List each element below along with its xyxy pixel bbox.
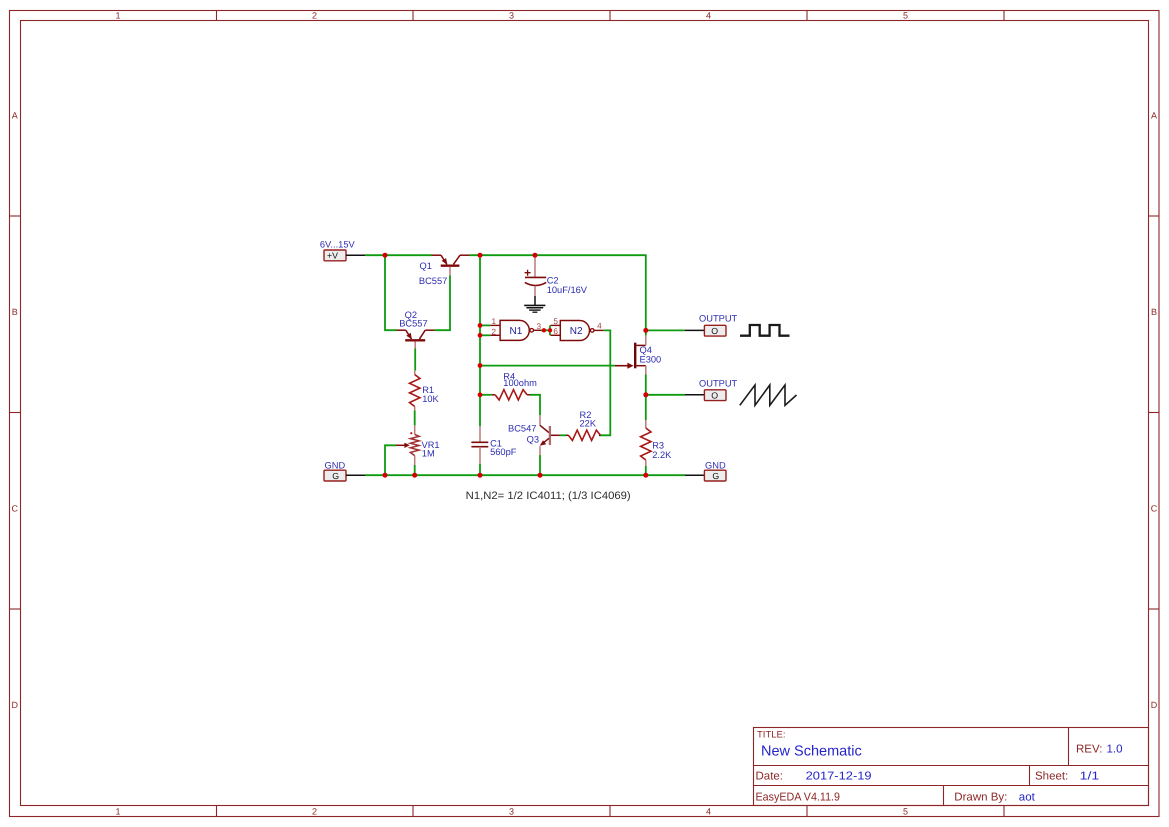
svg-text:OUTPUT: OUTPUT xyxy=(699,314,738,324)
svg-text:1M: 1M xyxy=(422,449,435,459)
capacitor C1 560pF xyxy=(471,426,516,464)
junction N1 output xyxy=(542,328,546,332)
svg-text:C: C xyxy=(11,504,18,514)
svg-text:3: 3 xyxy=(509,807,514,817)
wire Q3 base to R2 xyxy=(560,434,567,436)
svg-text:1: 1 xyxy=(115,11,120,21)
wire Q3 emitter to ground rail xyxy=(539,455,541,475)
junction rail at Q4 gate wire xyxy=(478,363,483,368)
svg-text:TITLE:: TITLE: xyxy=(757,730,786,741)
port OUTPUT (square wave) xyxy=(685,314,738,336)
wire vertical rail x=480 xyxy=(479,255,481,426)
wire Q1 base to Q2 collector xyxy=(435,276,451,331)
wire N1 out to N2 in xyxy=(541,329,550,331)
wire N2 output down to R2 xyxy=(599,330,610,435)
junction ground at R3 xyxy=(643,473,648,478)
wire output1 xyxy=(646,329,685,331)
svg-text:2: 2 xyxy=(492,327,497,336)
junction Q4 source / output2 xyxy=(643,392,648,397)
svg-text:560pF: 560pF xyxy=(490,447,517,457)
svg-text:6V...15V: 6V...15V xyxy=(320,239,356,249)
wire rail to N1 pin 1 xyxy=(480,324,490,326)
svg-text:REV:: REV: xyxy=(1076,744,1102,756)
svg-text:4: 4 xyxy=(706,11,711,21)
svg-text:Q1: Q1 xyxy=(420,261,432,271)
svg-text:N1: N1 xyxy=(510,326,523,337)
svg-text:aot: aot xyxy=(1019,791,1036,803)
wire rail to R4 xyxy=(480,394,492,396)
wire Q4 drain to junction xyxy=(645,330,647,335)
svg-text:22K: 22K xyxy=(580,419,597,429)
svg-text:EasyEDA V4.11.9: EasyEDA V4.11.9 xyxy=(756,791,841,803)
svg-text:N2: N2 xyxy=(570,326,583,337)
svg-text:100ohm: 100ohm xyxy=(503,378,537,388)
svg-text:2: 2 xyxy=(312,11,317,21)
power port +V (6V...15V) xyxy=(320,239,365,260)
svg-text:2: 2 xyxy=(312,807,317,817)
svg-text:GND: GND xyxy=(325,460,346,470)
junction top rail at C1 branch xyxy=(478,253,483,258)
NAND gate N2 (1/2 IC4011) xyxy=(551,317,604,340)
ground (earth) under C2 xyxy=(524,296,545,312)
svg-text:BC557: BC557 xyxy=(399,319,427,329)
svg-text:R3: R3 xyxy=(652,441,664,451)
junction rail at N1 pin1 xyxy=(478,323,483,328)
wire vertical N2 pins 5-6 xyxy=(549,325,551,335)
svg-text:Sheet:: Sheet: xyxy=(1035,771,1068,783)
svg-text:B: B xyxy=(1151,307,1157,317)
svg-text:C: C xyxy=(1151,504,1158,514)
svg-text:2.2K: 2.2K xyxy=(652,450,672,460)
junction ground at VR1 wiper xyxy=(383,473,388,478)
svg-text:E300: E300 xyxy=(640,354,662,364)
svg-text:5: 5 xyxy=(903,11,908,21)
svg-text:O: O xyxy=(711,391,718,401)
wire Q4 source down xyxy=(645,375,647,395)
svg-text:N1,N2= 1/2 IC4011; (1/3 IC4069: N1,N2= 1/2 IC4011; (1/3 IC4069) xyxy=(466,490,631,502)
svg-text:BC557: BC557 xyxy=(419,276,447,286)
svg-text:1: 1 xyxy=(492,317,497,326)
svg-text:G: G xyxy=(712,471,719,481)
port OUTPUT (sawtooth) xyxy=(685,378,738,400)
wire R4 to Q3 collector xyxy=(530,395,540,416)
wire VR1 wiper to ground xyxy=(385,445,396,475)
potentiometer VR1 1M xyxy=(396,425,440,465)
transistor Q1 BC557 (PNP) xyxy=(419,255,470,286)
transistor Q4 E300 (JFET) xyxy=(615,335,661,374)
svg-text:6: 6 xyxy=(553,327,558,336)
transistor Q2 BC557 (PNP) xyxy=(397,310,435,348)
wire junction down to Q2 emitter xyxy=(385,255,397,330)
junction at +V rail xyxy=(383,253,388,258)
resistor R1 10K xyxy=(410,371,440,411)
svg-text:BC547: BC547 xyxy=(508,423,536,433)
junction N2 input xyxy=(548,328,552,332)
power port GND (right) xyxy=(685,460,726,481)
svg-text:3: 3 xyxy=(537,322,542,331)
svg-text:New Schematic: New Schematic xyxy=(761,744,862,760)
junction rail at R4 xyxy=(478,392,483,397)
svg-text:Q3: Q3 xyxy=(527,435,539,445)
svg-text:GND: GND xyxy=(705,460,726,470)
junction ground at C1 xyxy=(478,473,483,478)
junction top rail right / output1 xyxy=(643,328,648,333)
svg-text:D: D xyxy=(11,700,18,710)
svg-text:B: B xyxy=(12,307,18,317)
svg-text:3: 3 xyxy=(509,11,514,21)
wire R1 to VR1 xyxy=(414,411,416,426)
svg-text:5: 5 xyxy=(903,807,908,817)
svg-text:+V: +V xyxy=(327,251,338,261)
wire +V to Q1 emitter xyxy=(365,254,432,256)
capacitor C2 10uF/16V (polar) xyxy=(525,255,588,296)
svg-text:Q4: Q4 xyxy=(640,345,652,355)
wire Q2 base to R1 xyxy=(414,349,416,371)
wire VR1 bottom to ground rail xyxy=(414,465,416,475)
svg-text:G: G xyxy=(332,471,339,481)
svg-text:4: 4 xyxy=(706,807,711,817)
svg-text:4: 4 xyxy=(597,321,602,330)
junction ground at Q3 emitter xyxy=(538,473,543,478)
svg-text:Drawn By:: Drawn By: xyxy=(954,791,1007,803)
wire rail to N1 pin 2 xyxy=(480,334,490,336)
power port GND (left) xyxy=(324,460,365,481)
svg-text:Date:: Date: xyxy=(756,771,784,783)
svg-text:1/1: 1/1 xyxy=(1080,771,1100,783)
junction rail at N1 pin2 xyxy=(478,333,483,338)
resistor R4 100ohm xyxy=(492,372,537,401)
svg-text:1: 1 xyxy=(115,807,120,817)
svg-text:A: A xyxy=(1151,111,1157,121)
svg-text:O: O xyxy=(711,326,718,336)
junction top rail at C2 branch xyxy=(533,253,538,258)
svg-text:10uF/16V: 10uF/16V xyxy=(547,285,588,295)
NAND gate N1 (1/2 IC4011) xyxy=(490,317,541,340)
svg-text:A: A xyxy=(12,111,18,121)
title block xyxy=(754,728,1149,806)
resistor R2 22K xyxy=(566,410,600,441)
svg-text:1.0: 1.0 xyxy=(1107,744,1123,756)
resistor R3 2.2K xyxy=(641,395,673,475)
svg-text:2017-12-19: 2017-12-19 xyxy=(806,771,872,783)
junction ground at VR1 xyxy=(412,473,417,478)
svg-text:D: D xyxy=(1151,700,1158,710)
sawtooth icon xyxy=(740,385,797,405)
wire Q1 collector along top rail to right corner xyxy=(470,255,646,330)
wire output2 xyxy=(646,394,685,396)
square wave icon xyxy=(740,325,790,336)
svg-text:OUTPUT: OUTPUT xyxy=(699,378,738,388)
svg-text:10K: 10K xyxy=(422,394,439,404)
wire Q4 gate xyxy=(480,365,615,367)
svg-text:5: 5 xyxy=(553,317,558,326)
transistor Q3 BC547 (NPN) xyxy=(508,415,560,455)
bottom ground rail xyxy=(365,474,685,476)
wire C1 to ground rail xyxy=(479,464,481,475)
